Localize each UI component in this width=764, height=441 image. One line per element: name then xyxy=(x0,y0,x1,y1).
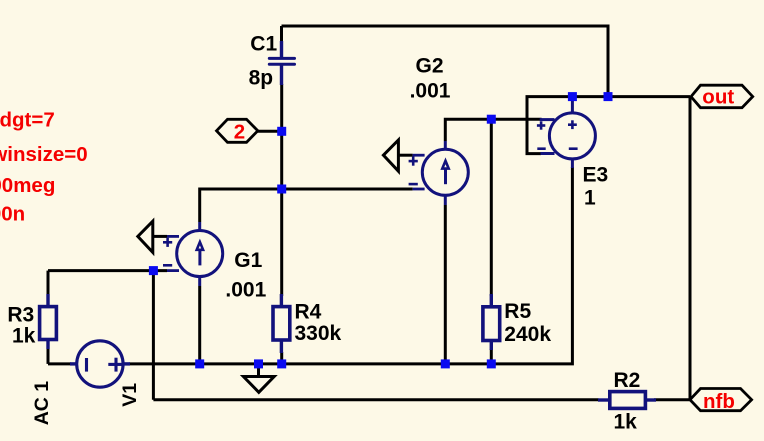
wire main vertical C1 bottom to R4 top xyxy=(280,84,283,296)
junction feedback tap xyxy=(149,266,158,275)
wire ground stub xyxy=(257,364,260,377)
junction ground xyxy=(254,359,263,368)
svg-text:R2: R2 xyxy=(614,369,641,392)
svg-text:out: out xyxy=(702,86,734,109)
net flag 2 xyxy=(217,119,258,143)
wire out node horizontal xyxy=(572,95,690,98)
svg-text:E3: E3 xyxy=(583,164,609,187)
wire top rail from C1 top to right corner down to out node xyxy=(282,26,609,97)
svg-text:1k: 1k xyxy=(614,411,638,434)
wire R3 top lead xyxy=(47,271,50,296)
wire R3 bottom lead xyxy=(47,348,50,364)
svg-text:dgt=7: dgt=7 xyxy=(0,109,55,132)
wire right vertical out to nfb xyxy=(689,97,692,400)
wire horizontal node inv to G2 minus control xyxy=(200,188,413,191)
junction G1 bottom xyxy=(195,359,204,368)
svg-text:G2: G2 xyxy=(416,55,444,78)
svg-text:nfb: nfb xyxy=(703,390,735,413)
resistor R4 xyxy=(273,294,290,353)
junction node 2 xyxy=(277,127,286,136)
svg-text:1k: 1k xyxy=(12,325,36,348)
svg-text:1: 1 xyxy=(584,187,596,210)
junction top corner xyxy=(604,92,613,101)
wire V1 left xyxy=(48,362,71,365)
wire G1 top pin xyxy=(198,188,201,223)
svg-text:V1: V1 xyxy=(119,383,141,407)
svg-text:2: 2 xyxy=(234,121,245,144)
wire ground rail V1 to E3 xyxy=(129,167,572,364)
svg-text:AC 1: AC 1 xyxy=(31,381,53,426)
net flag nfb xyxy=(690,389,752,414)
junction E3 out xyxy=(568,92,577,101)
wire node 2 flag to main vertical xyxy=(257,130,282,133)
svg-text:.001: .001 xyxy=(410,80,451,103)
junction R5 bottom xyxy=(487,359,496,368)
wire G2 bottom pin xyxy=(444,205,447,364)
resistor R5 xyxy=(483,294,500,350)
wire G1 bottom pin xyxy=(198,286,201,364)
wire C1 top lead xyxy=(280,26,283,43)
junction G2 bottom xyxy=(441,359,450,368)
svg-text:240k: 240k xyxy=(504,323,551,346)
voltage source V1 xyxy=(70,341,130,387)
ground xyxy=(243,377,274,393)
wire bottom feedback rail to R2 xyxy=(153,398,598,401)
wire R3 top to G1 minus control xyxy=(48,269,167,272)
svg-text:00n: 00n xyxy=(0,203,25,226)
svg-text:R3: R3 xyxy=(7,303,34,326)
wire feedback vertical xyxy=(152,271,155,400)
resistor R3 xyxy=(40,294,57,349)
svg-text:.001: .001 xyxy=(225,278,266,301)
wire G2 top to E3 plus control xyxy=(445,119,541,141)
svg-text:00meg: 00meg xyxy=(0,174,55,197)
svg-text:G1: G1 xyxy=(234,249,262,272)
svg-text:C1: C1 xyxy=(250,33,277,56)
svg-text:winsize=0: winsize=0 xyxy=(0,143,88,166)
wire R2 right to nfb xyxy=(654,398,690,401)
svg-text:R4: R4 xyxy=(295,301,322,324)
vccs G2 xyxy=(383,140,468,205)
wire R5 top long vertical xyxy=(490,119,493,296)
vcvs E3 xyxy=(537,98,596,168)
vccs G1 xyxy=(138,221,223,286)
wire R4 bottom lead xyxy=(280,352,283,364)
wire E3 feedback bracket xyxy=(527,97,572,154)
junction R5 top xyxy=(487,115,496,124)
wire R5 bottom lead xyxy=(490,349,493,364)
svg-text:R5: R5 xyxy=(504,300,531,323)
junction R4 bottom xyxy=(277,359,286,368)
net flag out xyxy=(691,85,753,109)
capacitor C1 xyxy=(269,41,294,85)
svg-text:8p: 8p xyxy=(249,66,274,89)
resistor R2 xyxy=(598,392,656,409)
junction inverting node xyxy=(277,185,286,194)
svg-text:330k: 330k xyxy=(295,322,342,345)
